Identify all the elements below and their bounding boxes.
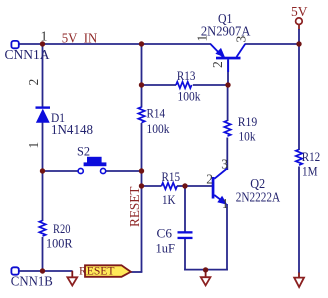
svg-text:1N4148: 1N4148 <box>51 122 93 137</box>
wire R19 to Q2 collector <box>226 138 228 171</box>
svg-text:1K: 1K <box>162 193 176 207</box>
wire Q2 emitter down <box>226 204 228 271</box>
wire bottom C6 to Q2 emitter <box>184 269 228 271</box>
wire rail to R13 <box>142 84 177 86</box>
svg-text:2: 2 <box>210 61 225 68</box>
wire R20 top <box>42 171 44 221</box>
svg-text:RESET: RESET <box>79 264 115 278</box>
ground right <box>294 278 304 287</box>
ground left <box>67 277 77 285</box>
svg-text:100k: 100k <box>178 89 202 103</box>
wire R20 bottom <box>42 237 44 271</box>
junction node bottom ground <box>203 267 208 272</box>
wire CNN1B to ground <box>19 270 73 272</box>
svg-text:2N2222A: 2N2222A <box>236 191 281 206</box>
wire R13 to node <box>193 84 228 86</box>
svg-text:CNN1A: CNN1A <box>5 48 51 63</box>
resistor R14 <box>138 107 144 123</box>
transistor Q2 <box>212 169 228 205</box>
junction node D1 / S2 <box>40 168 45 173</box>
port RESET <box>79 264 131 278</box>
resistor R20 <box>39 221 45 237</box>
ground center <box>201 277 211 285</box>
wire Q1 collector to 5V rail <box>245 43 299 45</box>
svg-text:C6: C6 <box>157 227 173 241</box>
wire S2 right to rail <box>106 170 142 172</box>
transistor Q1 <box>211 44 246 72</box>
svg-text:3: 3 <box>234 36 249 43</box>
junction node CNN1B / R20 <box>40 268 45 273</box>
svg-text:R15: R15 <box>162 170 181 184</box>
junction node 5V IN / middle rail <box>139 41 144 46</box>
connector CNN1A <box>11 41 18 48</box>
junction node Q1 base / R13 / R19 <box>225 82 230 87</box>
junction node 5V IN / D1 <box>40 41 45 46</box>
svg-text:2: 2 <box>26 79 41 86</box>
wire 5V stub <box>298 25 300 44</box>
wire R15 to node <box>177 185 185 187</box>
junction node 5V rail <box>296 41 301 46</box>
wire rail corner to RESET port <box>131 271 143 273</box>
power terminal 5V <box>296 18 303 25</box>
resistor R13 <box>176 82 192 88</box>
wire R12 to ground <box>298 167 300 274</box>
svg-text:5V IN: 5V IN <box>62 32 97 47</box>
resistor R19 <box>224 121 230 137</box>
wire 5V IN top rail left <box>19 43 142 45</box>
wire left ground stub <box>71 271 73 278</box>
svg-text:1uF: 1uF <box>156 241 176 255</box>
resistor R15 <box>162 183 178 189</box>
svg-text:R19: R19 <box>238 115 258 129</box>
wire left branch to D1 cathode <box>42 44 44 108</box>
junction node R15 / C6 / Q2 base <box>182 183 187 188</box>
wire middle rail R14 to port corner <box>141 123 143 272</box>
svg-text:1M: 1M <box>302 165 318 179</box>
svg-text:100k: 100k <box>147 122 171 136</box>
switch S2 <box>78 157 106 174</box>
resistor R12 <box>296 150 302 166</box>
svg-text:R13: R13 <box>177 69 196 83</box>
junction node S2 / rail <box>139 168 144 173</box>
wire center ground stub <box>205 270 207 278</box>
wire node to Q2 base <box>185 185 212 187</box>
wire C6 bottom down <box>184 239 186 271</box>
wire middle rail top to R14 <box>141 44 143 108</box>
svg-text:R12: R12 <box>302 150 321 164</box>
svg-text:5V: 5V <box>291 5 308 20</box>
svg-text:RESET: RESET <box>128 186 143 227</box>
wire node down to R19 <box>227 85 229 121</box>
wire right rail to R12 <box>298 44 300 150</box>
wire top rail to Q1 emitter <box>142 43 212 45</box>
connector CNN1B <box>11 267 18 274</box>
junction node rail / R13 <box>139 82 144 87</box>
svg-text:CNN1B: CNN1B <box>11 275 53 290</box>
junction node rail / R15 <box>139 183 144 188</box>
svg-text:100R: 100R <box>46 236 73 250</box>
svg-text:3: 3 <box>221 157 228 172</box>
svg-text:1: 1 <box>26 142 41 149</box>
svg-text:2: 2 <box>206 172 213 187</box>
capacitor C6 <box>178 231 193 239</box>
wire junction to S2 left <box>43 170 79 172</box>
svg-text:S2: S2 <box>77 145 90 159</box>
wire rail to R15 <box>142 185 162 187</box>
svg-text:R14: R14 <box>147 107 166 121</box>
svg-text:1: 1 <box>195 35 210 42</box>
svg-text:1: 1 <box>222 196 229 211</box>
diode D1 <box>36 108 51 123</box>
wire right ground stub <box>298 273 300 278</box>
svg-text:R20: R20 <box>53 222 71 236</box>
wire Q1 base down to node <box>227 60 229 86</box>
svg-text:10k: 10k <box>239 129 257 143</box>
wire D1 anode down <box>42 123 44 172</box>
wire node down to C6 <box>184 186 186 232</box>
